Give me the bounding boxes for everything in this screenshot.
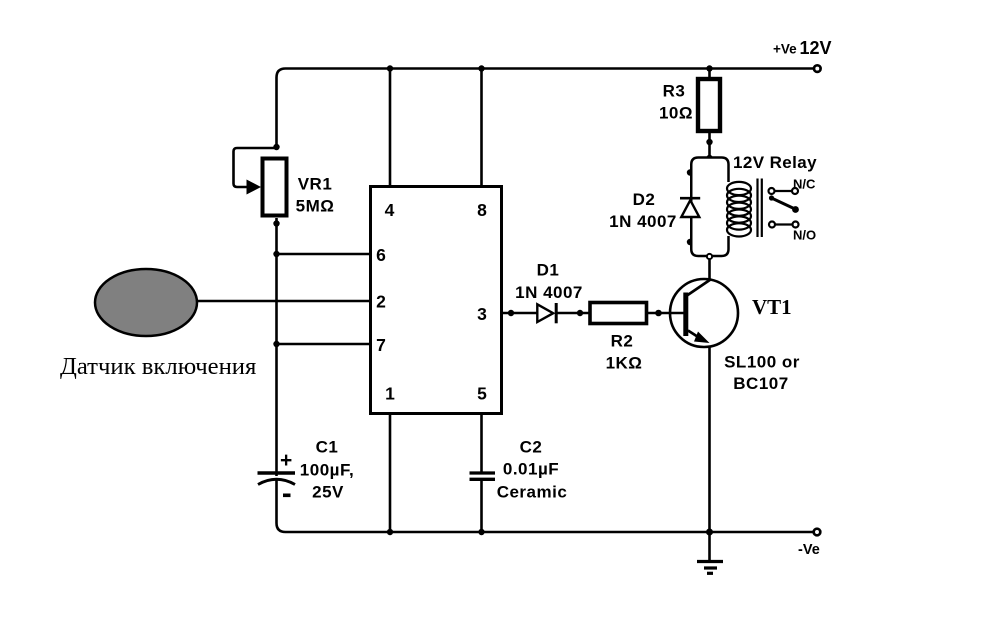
svg-text:R2: R2 bbox=[611, 332, 634, 351]
svg-text:1: 1 bbox=[385, 384, 395, 404]
svg-text:N/O: N/O bbox=[793, 228, 816, 243]
svg-text:N/C: N/C bbox=[793, 177, 816, 192]
svg-text:Ceramic: Ceramic bbox=[497, 483, 568, 502]
svg-text:BC107: BC107 bbox=[733, 374, 788, 393]
svg-text:12V Relay: 12V Relay bbox=[733, 153, 817, 172]
svg-text:2: 2 bbox=[376, 292, 386, 312]
svg-text:1KΩ: 1KΩ bbox=[606, 354, 643, 373]
svg-text:6: 6 bbox=[376, 245, 386, 265]
svg-text:5MΩ: 5MΩ bbox=[296, 197, 335, 216]
svg-text:D2: D2 bbox=[633, 190, 656, 209]
svg-text:+: + bbox=[280, 449, 292, 472]
svg-text:4: 4 bbox=[385, 200, 395, 220]
svg-text:VT1: VT1 bbox=[752, 295, 792, 319]
svg-text:+Ve: +Ve bbox=[773, 42, 797, 57]
svg-text:12V: 12V bbox=[800, 38, 832, 58]
svg-text:5: 5 bbox=[477, 384, 487, 404]
svg-text:C1: C1 bbox=[316, 438, 339, 457]
svg-text:10Ω: 10Ω bbox=[659, 104, 693, 123]
svg-text:C2: C2 bbox=[520, 438, 543, 457]
svg-text:Датчик включения: Датчик включения bbox=[60, 353, 256, 380]
svg-text:7: 7 bbox=[376, 335, 386, 355]
svg-text:1N 4007: 1N 4007 bbox=[515, 283, 583, 302]
svg-text:R3: R3 bbox=[663, 82, 686, 101]
svg-text:SL100 or: SL100 or bbox=[724, 353, 800, 372]
svg-text:0.01µF: 0.01µF bbox=[503, 460, 559, 479]
svg-text:VR1: VR1 bbox=[298, 175, 333, 194]
svg-text:3: 3 bbox=[477, 304, 487, 324]
svg-text:100µF,: 100µF, bbox=[300, 461, 354, 480]
svg-text:25V: 25V bbox=[312, 483, 344, 502]
svg-text:D1: D1 bbox=[537, 261, 560, 280]
svg-text:8: 8 bbox=[477, 200, 487, 220]
svg-text:-Ve: -Ve bbox=[798, 542, 820, 558]
svg-text:1N 4007: 1N 4007 bbox=[609, 212, 677, 231]
